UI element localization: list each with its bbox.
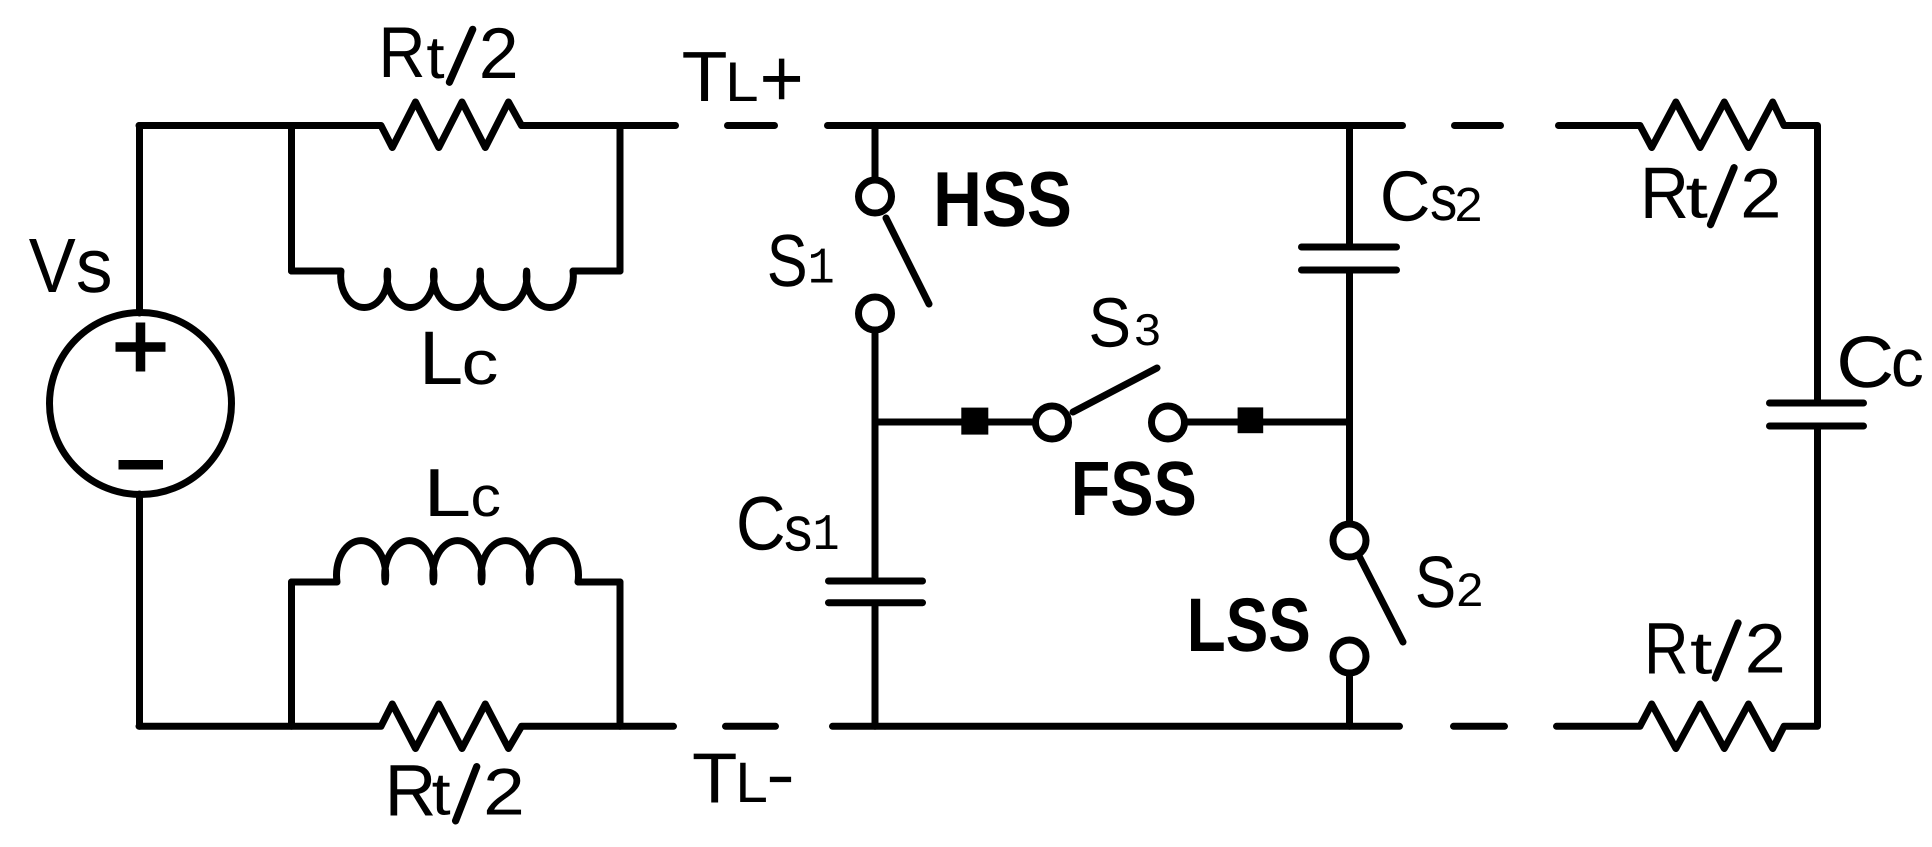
- switch S1 lower contact: [859, 297, 892, 330]
- switch S1 wire to Cs1: [872, 334, 879, 578]
- switch S2 blade: [1359, 556, 1403, 642]
- switch S2 upper contact: [1333, 524, 1366, 557]
- label Lc bottom: [423, 455, 501, 531]
- svg-text:s: s: [784, 492, 812, 564]
- voltage source Vs circle: [50, 313, 232, 495]
- switch S2 lower contact: [1333, 640, 1366, 673]
- svg-text:-: -: [766, 737, 795, 813]
- svg-text:C: C: [1380, 158, 1431, 237]
- bottom block left stub: [288, 582, 295, 726]
- wire FSS left: [875, 419, 1035, 426]
- dash bottom-right break: [1454, 723, 1505, 730]
- wire FSS right: [1185, 419, 1350, 426]
- svg-text:3: 3: [1134, 306, 1161, 355]
- svg-text:S: S: [1088, 284, 1131, 362]
- svg-text:s: s: [76, 223, 113, 309]
- svg-text:L: L: [725, 50, 759, 113]
- wire bottom-middle: [833, 723, 1400, 730]
- svg-text:2: 2: [479, 14, 519, 94]
- inductor L2: [292, 541, 621, 582]
- label Cs1: [736, 482, 840, 567]
- dash top-right break: [1455, 122, 1501, 129]
- svg-text:t: t: [1690, 620, 1713, 687]
- node square right of S3: [1238, 407, 1264, 433]
- label Rt/2 top-right: [1640, 153, 1782, 234]
- svg-text:2: 2: [1455, 179, 1483, 232]
- svg-text:R: R: [379, 13, 426, 93]
- capacitor Cs1 top plate: [829, 578, 923, 585]
- label Rt/2 top-left: [379, 13, 519, 94]
- slash of Rt/2 top-right: [1711, 168, 1735, 225]
- capacitor Cc top plate: [1770, 400, 1864, 407]
- switch S1 upper contact: [859, 180, 892, 213]
- dash TL- break left: [726, 723, 776, 730]
- wire Cs1 to bottom: [872, 607, 879, 727]
- wire Cs2 to S2: [1346, 274, 1353, 521]
- wire source bottom: [136, 494, 143, 726]
- svg-text:1: 1: [813, 507, 840, 565]
- svg-text:L: L: [423, 455, 471, 531]
- svg-text:c: c: [462, 329, 499, 398]
- wire bottom-left with resistor R2 zigzag: [139, 704, 674, 749]
- svg-text:+: +: [760, 32, 804, 125]
- svg-text:c: c: [471, 465, 501, 529]
- svg-text:2: 2: [1745, 610, 1786, 688]
- svg-text:s: s: [1430, 162, 1457, 234]
- svg-text:C: C: [736, 482, 786, 567]
- svg-text:1: 1: [808, 241, 835, 299]
- switch S3 blade: [1073, 368, 1157, 412]
- label Rt/2 bottom-right: [1644, 609, 1786, 690]
- svg-text:S: S: [767, 219, 808, 302]
- svg-text:L: L: [419, 316, 463, 401]
- svg-text:R: R: [1644, 609, 1689, 690]
- svg-text:T: T: [692, 740, 737, 819]
- svg-text:R: R: [1640, 153, 1689, 234]
- wire Cs2 from top: [1346, 126, 1353, 244]
- svg-text:t: t: [432, 761, 451, 828]
- wire bottom-right with resistor R4 zigzag: [1557, 430, 1818, 749]
- svg-text:2: 2: [1740, 154, 1781, 232]
- svg-text:HSS: HSS: [933, 155, 1072, 243]
- label Cs2: [1380, 158, 1483, 237]
- label Cc: [1836, 322, 1924, 403]
- capacitor Cs2 top plate: [1302, 244, 1397, 251]
- wire source top: [136, 126, 143, 314]
- slash of Rt/2 bottom-right: [1715, 623, 1738, 678]
- svg-text:t: t: [426, 24, 445, 91]
- minus sign: [119, 460, 164, 470]
- switch S3 right contact: [1152, 406, 1185, 439]
- svg-text:L: L: [735, 751, 768, 815]
- plus sign: [116, 323, 166, 372]
- capacitor Cc bottom plate: [1770, 423, 1864, 430]
- capacitor Cs2 bottom plate: [1302, 267, 1397, 274]
- label S3: [1088, 284, 1160, 362]
- label TL+: [682, 32, 804, 125]
- label TL-: [692, 737, 795, 819]
- svg-text:2: 2: [1456, 563, 1483, 616]
- switch S2 wire to bottom: [1346, 677, 1353, 727]
- top block right stub: [617, 126, 624, 272]
- bottom block right stub: [617, 582, 624, 726]
- slash of Rt/2 top-left: [449, 29, 472, 82]
- switch S3 left contact: [1036, 406, 1069, 439]
- svg-text:V: V: [29, 223, 77, 309]
- svg-text:FSS: FSS: [1071, 446, 1197, 532]
- label Vs: [29, 223, 113, 309]
- label S1: [767, 219, 835, 302]
- svg-text:t: t: [1686, 164, 1709, 231]
- svg-text:S: S: [1415, 542, 1457, 623]
- switch S1 blade: [886, 218, 929, 304]
- svg-text:R: R: [385, 751, 437, 832]
- svg-text:C: C: [1836, 322, 1894, 403]
- slash of Rt/2 bottom-left: [456, 767, 477, 821]
- svg-text:LSS: LSS: [1187, 583, 1311, 668]
- wire top-right with resistor R3 zigzag: [1559, 102, 1818, 400]
- label Lc top: [419, 316, 499, 401]
- svg-text:c: c: [1891, 325, 1924, 401]
- top block left stub: [288, 126, 295, 272]
- node square left of S3: [961, 408, 988, 435]
- inductor L1: [292, 271, 621, 308]
- switch S1 wire from top: [872, 126, 879, 177]
- svg-text:T: T: [682, 38, 728, 117]
- wire top-middle: [828, 122, 1403, 129]
- svg-text:2: 2: [483, 755, 525, 829]
- dash TL+ break left: [728, 122, 775, 129]
- label Rt/2 bottom-left: [385, 751, 525, 832]
- capacitor Cs1 bottom plate: [829, 599, 923, 606]
- label S2: [1415, 542, 1484, 623]
- wire top-left with resistor R1 zigzag: [139, 102, 676, 148]
